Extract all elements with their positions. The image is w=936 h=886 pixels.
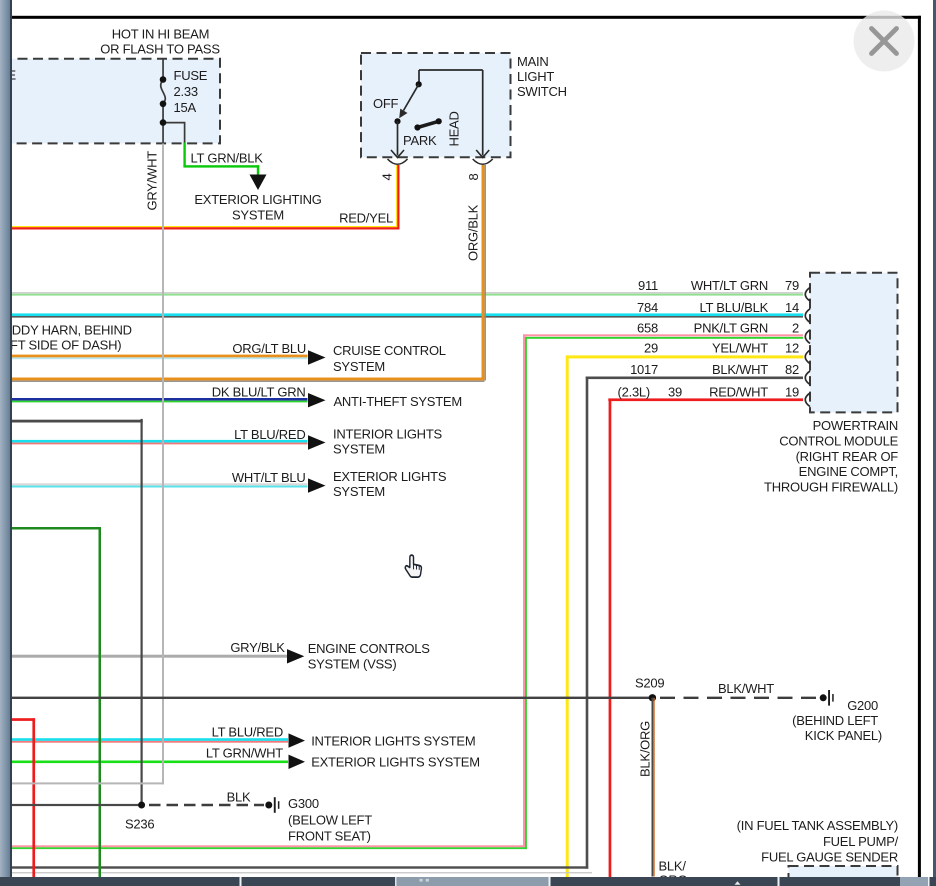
svg-text:MAIN: MAIN [517,54,549,69]
svg-text:ORG/BLK: ORG/BLK [466,204,481,261]
svg-text:S236: S236 [125,817,154,832]
svg-text:(BELOW LEFT: (BELOW LEFT [288,812,372,827]
svg-text:S209: S209 [635,675,664,690]
svg-text:784: 784 [637,300,658,315]
svg-text:(RIGHT REAR OF: (RIGHT REAR OF [796,449,899,464]
svg-text:14: 14 [785,300,799,315]
svg-text:8: 8 [466,174,481,181]
svg-text:RED/YEL: RED/YEL [339,211,393,226]
svg-text:EXTERIOR LIGHTING: EXTERIOR LIGHTING [194,192,321,207]
svg-text:GRY/BLK: GRY/BLK [230,640,285,655]
svg-text:12: 12 [785,341,799,356]
svg-text:FUEL PUMP/: FUEL PUMP/ [823,834,899,849]
svg-text:ENGINE COMPT,: ENGINE COMPT, [799,464,898,479]
svg-text:HEAD: HEAD [447,111,462,146]
svg-text:DDY HARN, BEHIND: DDY HARN, BEHIND [12,323,132,338]
svg-text:DK BLU/LT GRN: DK BLU/LT GRN [212,384,306,399]
svg-text:BLK/ORG: BLK/ORG [638,721,653,777]
svg-text:1017: 1017 [630,362,658,377]
svg-text:YEL/WHT: YEL/WHT [712,341,768,356]
svg-text:HOT IN HI BEAM: HOT IN HI BEAM [112,26,209,41]
svg-text:(2.3L): (2.3L) [618,385,650,400]
svg-text:OR FLASH TO PASS: OR FLASH TO PASS [100,41,220,56]
svg-text:SYSTEM: SYSTEM [333,442,385,457]
svg-text:BLK/: BLK/ [659,858,687,873]
svg-text:15A: 15A [174,100,197,115]
svg-text:FUSE: FUSE [174,68,208,83]
svg-text:G200: G200 [847,698,878,713]
svg-text:19: 19 [785,385,799,400]
svg-text:WHT/LT BLU: WHT/LT BLU [232,470,306,485]
svg-text:SYSTEM: SYSTEM [333,484,385,499]
svg-text:2.33: 2.33 [174,84,198,99]
svg-text:658: 658 [637,320,658,335]
svg-text:4: 4 [380,174,395,181]
svg-text:79: 79 [785,278,799,293]
svg-text:(BEHIND LEFT: (BEHIND LEFT [792,713,878,728]
svg-text:BLK/WHT: BLK/WHT [712,362,768,377]
svg-text:CONTROL MODULE: CONTROL MODULE [779,433,898,448]
svg-text:911: 911 [638,278,658,293]
svg-text:LT GRN/BLK: LT GRN/BLK [191,150,264,165]
svg-text:39: 39 [668,385,682,400]
svg-text:LT BLU/RED: LT BLU/RED [212,725,283,740]
svg-text:SYSTEM: SYSTEM [232,208,284,223]
svg-text:LT GRN/WHT: LT GRN/WHT [206,746,283,761]
svg-text:ENGINE CONTROLS: ENGINE CONTROLS [308,641,431,656]
svg-text:LIGHT: LIGHT [517,69,554,84]
svg-text:POWERTRAIN: POWERTRAIN [813,418,898,433]
svg-text:PNK/LT GRN: PNK/LT GRN [694,320,768,335]
svg-text:ORG/LT BLU: ORG/LT BLU [232,341,306,356]
svg-text:OFF: OFF [373,96,399,111]
svg-text:LT BLU/RED: LT BLU/RED [234,427,305,442]
svg-text:BLK: BLK [227,790,251,805]
svg-text:29: 29 [644,341,658,356]
svg-text:KICK PANEL): KICK PANEL) [805,728,882,743]
svg-text:THROUGH FIREWALL): THROUGH FIREWALL) [764,480,898,495]
svg-text:FRONT SEAT): FRONT SEAT) [288,829,371,844]
svg-text:ANTI-THEFT SYSTEM: ANTI-THEFT SYSTEM [334,394,462,409]
svg-text:INTERIOR LIGHTS: INTERIOR LIGHTS [333,426,443,441]
svg-text:(IN FUEL TANK ASSEMBLY): (IN FUEL TANK ASSEMBLY) [737,818,898,833]
svg-text:INTERIOR LIGHTS SYSTEM: INTERIOR LIGHTS SYSTEM [311,733,475,748]
svg-text:FT SIDE OF DASH): FT SIDE OF DASH) [10,338,121,353]
svg-text:BLK/WHT: BLK/WHT [718,681,774,696]
svg-text:RED/WHT: RED/WHT [709,385,768,400]
svg-text:CRUISE CONTROL: CRUISE CONTROL [333,343,446,358]
svg-text:82: 82 [785,362,799,377]
svg-text:2: 2 [792,320,799,335]
svg-text:G300: G300 [288,796,319,811]
svg-text:WHT/LT GRN: WHT/LT GRN [691,278,768,293]
svg-text:EXTERIOR LIGHTS SYSTEM: EXTERIOR LIGHTS SYSTEM [311,754,480,769]
svg-text:LT BLU/BLK: LT BLU/BLK [699,300,768,315]
svg-text:SYSTEM (VSS): SYSTEM (VSS) [308,656,397,671]
svg-text:SWITCH: SWITCH [517,84,567,99]
svg-text:GRY/WHT: GRY/WHT [145,151,160,211]
svg-text:PARK: PARK [403,133,437,148]
svg-text:EXTERIOR LIGHTS: EXTERIOR LIGHTS [333,469,447,484]
svg-text:FUEL GAUGE SENDER: FUEL GAUGE SENDER [761,850,898,865]
svg-text:SYSTEM: SYSTEM [333,359,385,374]
